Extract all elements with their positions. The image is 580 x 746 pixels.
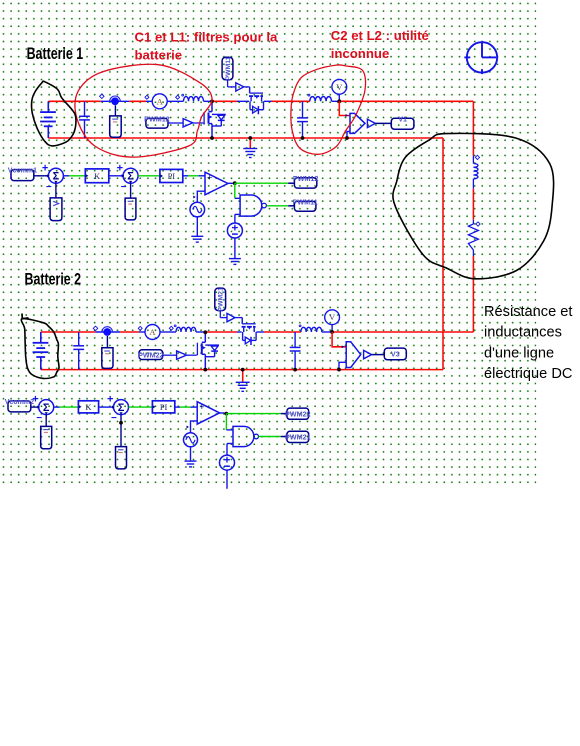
svg-text:+: + [32,394,38,406]
label PWM12 out [293,174,319,188]
sine carrier source 2 [191,421,198,433]
wire K to S2 [109,175,123,177]
buffer U2 out [364,350,372,358]
pwm label PWM22 gate source [138,350,164,360]
capacitor C1 [79,101,90,138]
ground power stage 2 [242,370,244,382]
wire sensor to S2 [130,183,132,198]
wire opamp2 out junction [220,412,227,414]
wire Vcomm2 to sum [31,406,39,408]
wire DC line top vertical [472,101,474,155]
svg-text:C2 et L2 : utilité: C2 et L2 : utilité [331,28,429,43]
grid dots background [0,0,536,485]
junction opamp1 out [233,181,237,185]
junction Q1 drain [210,99,214,103]
svg-text:+: + [42,162,48,174]
buffer U1 out [366,122,368,124]
wire to PWM12 out label [235,182,288,184]
buffer gate driver 1 [168,122,183,124]
red ellipse around C2 L2 [291,65,366,154]
svg-text:PI: PI [168,171,176,181]
svg-text:Batterie 2: Batterie 2 [25,271,82,289]
svg-text:PWM21: PWM21 [217,287,224,311]
transistor Q4 series switch [242,318,257,345]
NAND gate G1 [240,195,266,216]
capacitor C2 [297,101,308,138]
capacitor C3 [73,332,84,370]
voltmeter V1 [338,94,340,101]
svg-text:PWM22: PWM22 [285,409,311,418]
buffer gate driver Q2 [227,80,229,87]
inductor L4 [301,327,322,332]
junction C2 bottom [301,136,305,140]
inductor L3 [176,327,196,332]
polarity mark node1 [100,94,105,99]
black blob around battery B2 [21,319,59,379]
battery B1 [40,101,56,138]
wire bottom rail battery2 [41,369,443,371]
label PWM11 vertical [222,56,233,80]
voltage probe VP2 [106,336,108,348]
wire junction to NAND [234,183,236,198]
comparator U2 [346,342,361,368]
svg-text:V: V [329,312,336,322]
summer S1 [42,162,64,193]
node dot battery1 bus [110,96,121,105]
wire L1 to mosfet Q1 [212,100,237,102]
svg-text:Σ: Σ [118,402,125,414]
wire L2 to V1 node [332,100,340,102]
summer S3 [32,394,54,425]
junction ground 1 [248,136,252,140]
summer S2 [117,162,139,193]
svg-text:V3: V3 [391,350,400,359]
voltmeter V2 [331,325,333,332]
ground power stage 1 [249,138,251,148]
junction comparator minus rail 1 [345,136,349,140]
svg-text:Σ: Σ [53,171,60,183]
svg-text:inductances: inductances [484,325,562,341]
svg-text:A: A [157,96,164,106]
summer S4 [107,394,129,425]
black blob around battery B1 [32,81,76,146]
wire DC line return vertical [442,138,444,370]
wire V2 to comparator plus [332,332,346,347]
wire K2 to S4 [99,406,114,408]
junction ground 2 [241,368,245,372]
svg-text:PWM12: PWM12 [144,114,170,123]
sensor probe S4 feedback [116,447,127,469]
svg-text:PWM21: PWM21 [285,433,311,442]
wire top rail battery1 [48,100,101,102]
svg-text:+: + [207,173,212,183]
label V1 out [391,114,414,129]
wire NAND2 out to PWM21 label [259,436,281,438]
red ellipse around C1 L1 [75,64,212,157]
clock icon [464,42,497,74]
svg-text:V1: V1 [398,114,407,123]
transistor Q1 chopper [204,101,226,138]
svg-text:−: − [36,413,42,424]
junction V1 node [337,99,341,103]
label Vcomm1 [8,168,37,181]
PI controller block 1 [160,169,183,182]
label V3 out [384,348,406,360]
junction C4 bottom [293,368,297,372]
wire comparator minus 1 [347,132,350,139]
svg-text:+: + [117,162,123,174]
capacitor C4 [290,332,301,370]
wire sensor to S1 [55,183,57,198]
inductor line L5 vertical [472,156,474,164]
sine carrier source 1 [197,191,205,202]
junction Q3 source [203,368,207,372]
wire to PWM22 out label [226,413,280,415]
PI controller block 2 [152,401,174,413]
label PWM21 out [285,431,311,442]
svg-text:d'une ligne: d'une ligne [484,345,554,361]
polarity mark ammeter2 [138,326,142,330]
svg-text:K: K [85,402,92,412]
dc source E2 [226,444,228,456]
transistor Q2 series switch [249,87,264,114]
label PWM11 out [293,197,318,211]
svg-text:+: + [107,394,113,406]
node dot battery2 bus [102,327,113,336]
svg-text:−: − [121,182,127,193]
polarity mark ammeter1 [145,95,149,99]
ground dc source 1 [229,259,241,265]
wire R1 to battery2 rail [472,250,474,256]
comparator U1 [350,113,365,133]
svg-text:PWM11: PWM11 [293,197,318,206]
gain block K1 [85,169,109,183]
svg-text:V: V [336,82,343,92]
op-amp comparator OA2 [197,402,219,424]
svg-text:−: − [46,182,52,193]
wire junction below S4 [120,415,122,447]
dc source E1 [234,214,236,223]
wire top rail battery2 [41,331,96,333]
wire PI2 to opamp2 [175,406,180,408]
svg-text:A: A [149,327,156,337]
NAND gate G2 [233,426,259,446]
wire mosfet Q2 to C2 [264,100,272,102]
svg-text:Vcomm1: Vcomm1 [8,168,37,175]
wire V1 node to DC line [339,100,473,102]
svg-text:+: + [199,402,204,412]
wire V1 to comparator plus [339,101,350,115]
resistor R1 vertical [472,220,474,224]
junction comparator minus rail 2 [337,368,341,372]
transistor Q3 chopper [197,332,219,370]
wire junction2 to NAND2 [225,414,227,430]
wire sensor to S3 [45,415,47,427]
label PWM22 out [285,408,311,419]
svg-text:batterie: batterie [135,47,183,62]
label Vcomm2 [5,399,34,412]
sensor probe S3 feedback [41,426,52,448]
wire S1 to K [64,175,70,177]
wire S2 to PI [138,175,160,177]
svg-text:Σ: Σ [127,171,134,183]
buffer gate driver 3 [163,354,177,356]
junction below S4 [119,421,123,425]
svg-text:Batterie 1: Batterie 1 [27,45,84,63]
svg-text:PWM11: PWM11 [225,56,232,80]
svg-text:inconnue: inconnue [331,46,390,61]
ground sine 1 [191,236,203,242]
polarity mark node2 [93,326,98,331]
junction opamp2 out [225,412,229,416]
wire comparator minus 2 [339,362,346,369]
wire ammeter to inductor L1 [167,100,183,102]
ammeter A1 [152,94,167,109]
label PWM21 vertical [215,287,226,311]
svg-text:PI: PI [160,402,168,412]
buffer gate driver Q4 [219,311,221,318]
wire Vcomm1 to sum [34,175,49,177]
svg-text:Σ: Σ [43,402,50,414]
wire node segment [101,100,130,102]
black blob around DC line R and L [393,133,554,278]
svg-text:Vcomm2: Vcomm2 [5,399,34,406]
svg-text:PWM12: PWM12 [293,174,319,183]
svg-text:C1 et L1: filtres pour la: C1 et L1: filtres pour la [135,29,279,44]
gain block K2 [78,401,98,413]
wire PI to opamp [183,175,188,177]
wire between L5 and R1 [472,189,474,220]
sensor probe S1 feedback [50,198,62,221]
svg-text:PWM22: PWM22 [138,350,164,359]
sensor probe S2 feedback [125,198,136,220]
junction Q1 source [210,136,214,140]
inductor L1 [184,97,204,102]
junction V2 node [330,330,334,334]
wire below E2 [226,470,228,489]
wire opamp out junction [228,182,235,184]
wire S3 to K [54,406,60,408]
inductor L2 [310,97,332,102]
svg-text:électrique DC: électrique DC [484,366,572,382]
voltage probe VP1 [114,105,116,116]
svg-text:−: − [111,413,117,424]
wire node to ammeter [129,100,146,102]
wire bottom rail battery1 [48,137,443,139]
pwm label PWM12 gate source [144,114,170,128]
wire NAND out to PWM11 label [267,205,289,207]
svg-text:Résistance et: Résistance et [484,304,572,320]
wire S4 to PI2 [129,406,153,408]
ground sine 2 [185,461,197,467]
battery B2 [33,332,49,370]
svg-text:K: K [94,171,101,181]
junction Q3 drain [203,330,207,334]
ammeter A2 [145,325,160,340]
op-amp comparator OA1 [205,172,228,195]
